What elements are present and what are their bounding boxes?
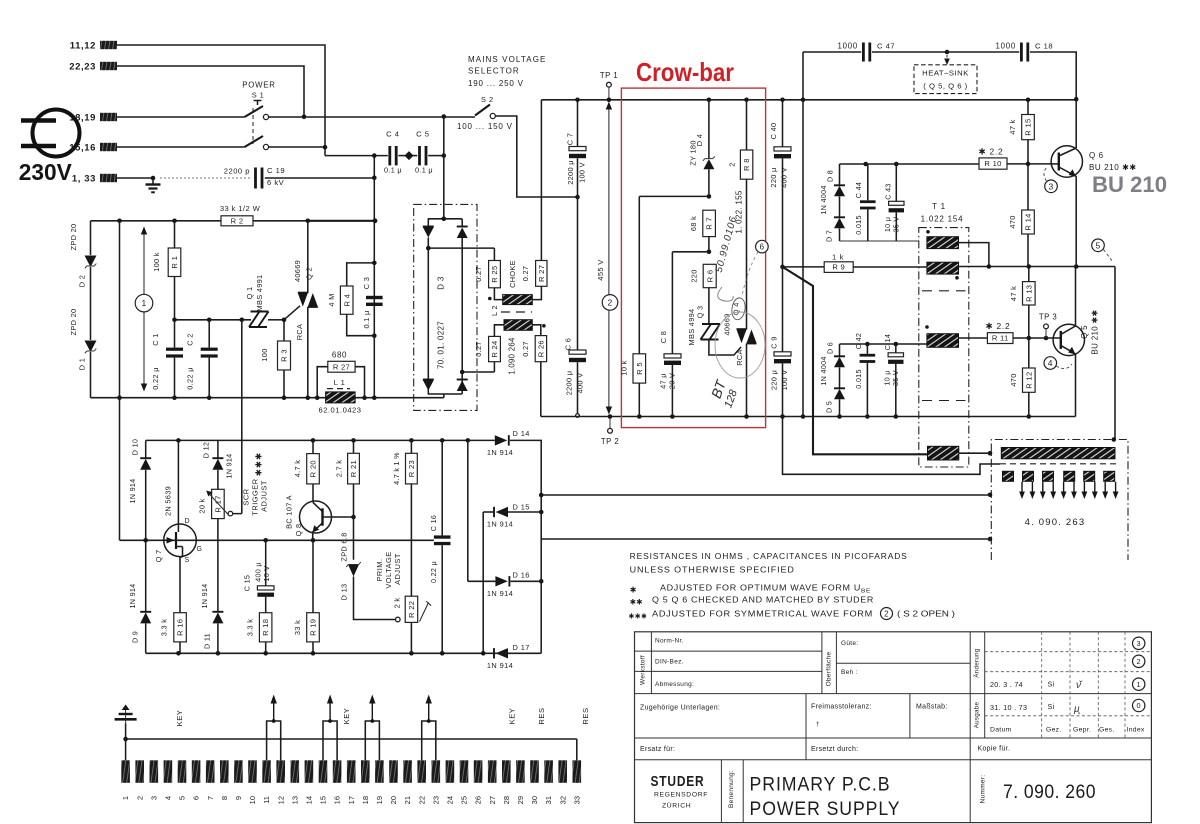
- capacitor C40 220u 400V: [782, 100, 784, 147]
- svg-text:Q 5 Q 6 CHECKED AND MATCHE: Q 5 Q 6 CHECKED AND MATCHED BY STUDER: [652, 596, 874, 605]
- output small blocks: [1003, 471, 1014, 481]
- svg-text:4.7 k 1 %: 4.7 k 1 %: [392, 452, 401, 485]
- paired pin arrows 11/12 15/16 18/19 22/23: [267, 721, 281, 760]
- svg-text:3: 3: [149, 796, 158, 800]
- svg-text:S 2: S 2: [481, 95, 494, 104]
- svg-text:1N 914: 1N 914: [128, 479, 137, 504]
- svg-text:R 25: R 25: [490, 266, 499, 283]
- svg-text:C 5: C 5: [416, 130, 429, 139]
- svg-text:R 5: R 5: [635, 362, 644, 375]
- svg-text:100 k: 100 k: [152, 252, 161, 272]
- node circle 2: [602, 295, 618, 311]
- capacitor C7 2200u 100V: [577, 100, 579, 146]
- svg-text:Q 3: Q 3: [696, 306, 705, 319]
- svg-text:ZPD 20: ZPD 20: [69, 309, 78, 336]
- chassis ground at connector: [122, 705, 130, 711]
- svg-text:R 15: R 15: [1024, 118, 1033, 135]
- svg-text:C 2: C 2: [186, 333, 195, 345]
- svg-text:Q 1: Q 1: [245, 287, 254, 300]
- wire from x783 down to block: [783, 417, 1001, 475]
- svg-text:32: 32: [558, 796, 567, 804]
- capacitor C1 0.22u: [174, 320, 176, 348]
- resistor R3 100: [283, 320, 285, 341]
- FET Q7 2N5639: [164, 524, 197, 557]
- svg-text:1N 4004: 1N 4004: [819, 185, 828, 214]
- bridge diode bottom-left: [423, 379, 434, 381]
- svg-text:Gez.: Gez.: [1046, 727, 1062, 734]
- svg-text:4: 4: [1048, 358, 1053, 368]
- mains plug symbol: [33, 110, 80, 157]
- svg-text:( Q 5, Q 6 ): ( Q 5, Q 6 ): [923, 82, 967, 91]
- capacitor C19 2200p 6kV: [160, 177, 252, 179]
- svg-text:2: 2: [884, 609, 889, 618]
- svg-text:SELECTOR: SELECTOR: [468, 67, 520, 76]
- svg-text:S 1: S 1: [252, 91, 265, 100]
- svg-text:2: 2: [607, 297, 612, 307]
- svg-text:C 1: C 1: [151, 333, 160, 345]
- svg-text:μ̨: μ̨: [1073, 704, 1080, 715]
- svg-text:ADJUST: ADJUST: [393, 553, 402, 585]
- node circle 3: [1045, 180, 1058, 193]
- resistor R15 47k: [1027, 100, 1029, 115]
- long vertical from R2 line to SCR gate line: [119, 221, 121, 541]
- svg-text:R 23: R 23: [407, 460, 416, 477]
- svg-text:✱ 2.2: ✱ 2.2: [979, 147, 1004, 157]
- resistor R8 2: [740, 150, 752, 179]
- svg-text:680: 680: [332, 351, 347, 360]
- svg-text:26: 26: [474, 796, 483, 804]
- resistor R26 0.27: [535, 336, 546, 362]
- test point TP3: [1045, 329, 1047, 338]
- diode D6 1N4004: [839, 344, 841, 356]
- base feed wire y=164: [840, 163, 980, 165]
- svg-text:D 6: D 6: [826, 342, 835, 354]
- svg-text:C 15: C 15: [243, 575, 252, 591]
- svg-text:0.1 μ: 0.1 μ: [362, 310, 371, 328]
- svg-text:25: 25: [460, 796, 469, 804]
- svg-text:R 7: R 7: [705, 217, 714, 230]
- svg-text:3.3 k: 3.3 k: [246, 619, 255, 637]
- svg-text:1.022 154: 1.022 154: [921, 215, 964, 224]
- svg-text:Freimasstoleranz:: Freimasstoleranz:: [811, 704, 872, 711]
- svg-text:C 40: C 40: [769, 123, 778, 140]
- svg-text:D 5: D 5: [825, 401, 834, 413]
- svg-text:Q 5: Q 5: [1080, 325, 1089, 339]
- title block frame: [635, 632, 1152, 823]
- svg-text:19: 19: [375, 796, 384, 804]
- svg-text:Ersetzt durch:: Ersetzt durch:: [811, 746, 858, 753]
- svg-text:470: 470: [1009, 373, 1018, 386]
- node circle 4: [1044, 357, 1057, 370]
- svg-text:D 16: D 16: [513, 571, 530, 580]
- svg-text:1000: 1000: [995, 42, 1016, 51]
- svg-text:ZPD 20: ZPD 20: [69, 224, 78, 251]
- svg-text:PRIMARY P.C.B: PRIMARY P.C.B: [750, 775, 891, 796]
- svg-text:2200 p: 2200 p: [224, 167, 250, 176]
- svg-text:D 3: D 3: [437, 276, 446, 290]
- svg-text:21: 21: [403, 796, 412, 804]
- svg-text:C 16: C 16: [429, 515, 438, 531]
- svg-text:C 44: C 44: [854, 182, 863, 198]
- svg-text:14: 14: [304, 796, 313, 804]
- svg-text:3.3 k: 3.3 k: [160, 619, 169, 637]
- svg-text:R 24: R 24: [490, 340, 499, 357]
- svg-text:L 1: L 1: [334, 378, 346, 387]
- main HT bus: [542, 99, 1077, 101]
- resistor R4 4M with capacitor C3 0.1u: [347, 263, 375, 336]
- svg-text:✱✱✱: ✱✱✱: [254, 452, 264, 476]
- svg-text:✱✱✱: ✱✱✱: [629, 612, 648, 621]
- svg-text:47 k: 47 k: [1009, 286, 1018, 301]
- svg-text:TP 1: TP 1: [600, 71, 618, 80]
- svg-text:6: 6: [759, 243, 764, 252]
- resistor R19 33k: [312, 540, 314, 612]
- svg-text:17: 17: [347, 796, 356, 804]
- svg-text:2200 μ: 2200 μ: [565, 371, 574, 396]
- svg-text:Kopie für.: Kopie für.: [978, 746, 1011, 753]
- svg-text:1N 914: 1N 914: [128, 584, 137, 609]
- svg-text:20 V: 20 V: [668, 373, 677, 389]
- svg-text:470: 470: [1008, 215, 1017, 228]
- svg-text:20. 3 . 74: 20. 3 . 74: [990, 680, 1023, 689]
- svg-text:Ges.: Ges.: [1099, 727, 1115, 734]
- svg-text:100: 100: [260, 348, 269, 361]
- capacitor C14 10u 35V: [895, 344, 897, 353]
- svg-text:Gepr.: Gepr.: [1073, 727, 1091, 734]
- svg-text:D 2: D 2: [78, 275, 87, 287]
- svg-text:62.01.0423: 62.01.0423: [318, 406, 361, 415]
- T1 winding 1: [927, 237, 959, 249]
- svg-text:1N 4004: 1N 4004: [819, 356, 828, 385]
- svg-text:33: 33: [572, 796, 581, 804]
- capacitor C5 0.1u: [413, 155, 418, 157]
- svg-text:STUDER: STUDER: [651, 774, 705, 790]
- svg-text:C 43: C 43: [884, 183, 893, 199]
- wire after S1 lower, joins 11,12: [269, 146, 325, 148]
- emitter rail wire y=266.5: [959, 267, 1116, 439]
- svg-text:Maßstab:: Maßstab:: [916, 704, 948, 711]
- svg-text:20 k: 20 k: [198, 498, 207, 513]
- svg-text:0.1 μ: 0.1 μ: [384, 166, 402, 175]
- bridge diode top-left: [423, 226, 434, 228]
- svg-text:2: 2: [728, 162, 737, 166]
- connector bus line: [126, 739, 577, 760]
- svg-text:BU 210 ✱✱: BU 210 ✱✱: [1089, 163, 1137, 172]
- svg-text:33 k 1/2 W: 33 k 1/2 W: [220, 204, 261, 213]
- svg-text:10: 10: [248, 796, 257, 804]
- vertical x374 from C4/C5 line down: [373, 156, 375, 397]
- output arrows: [1021, 482, 1023, 494]
- bridge diode top-right: [457, 226, 468, 228]
- svg-text:0.22 μ: 0.22 μ: [429, 561, 438, 583]
- resistor R13 47k: [1028, 267, 1030, 282]
- measure arrow with node circle 1: [141, 227, 147, 235]
- svg-text:Zugehörige Unterlagen:: Zugehörige Unterlagen:: [640, 705, 720, 712]
- svg-text:SCR: SCR: [242, 488, 251, 505]
- svg-text:HEAT–SINK: HEAT–SINK: [922, 69, 969, 78]
- svg-text:22,23: 22,23: [69, 61, 96, 72]
- svg-text:4 M: 4 M: [327, 293, 336, 306]
- resistor R2 33k 1/2W: [91, 220, 222, 222]
- svg-text:D 13: D 13: [340, 584, 349, 601]
- svg-text:✱: ✱: [630, 586, 637, 595]
- svg-text:D 4: D 4: [695, 134, 704, 146]
- top rail of trigger section y=440.4: [146, 439, 495, 441]
- svg-text:5: 5: [1095, 240, 1100, 250]
- svg-text:UNLESS OTHERWISE SPECIFIED: UNLESS OTHERWISE SPECIFIED: [630, 566, 795, 575]
- gate wire to triac Q2: [284, 306, 300, 320]
- diode D8 1N4004: [839, 164, 841, 185]
- svg-text:1: 1: [121, 796, 130, 800]
- T1 winding 4: [928, 446, 959, 460]
- svg-text:0: 0: [1136, 701, 1140, 710]
- svg-text:C 4: C 4: [386, 130, 399, 139]
- svg-text:C 6: C 6: [564, 338, 573, 350]
- choke L2 winding A: [503, 295, 533, 305]
- svg-text:9: 9: [234, 796, 243, 800]
- svg-text:Q 6: Q 6: [1089, 151, 1104, 160]
- svg-text:1N 914: 1N 914: [487, 520, 513, 529]
- capacitor C43 10u 35V: [895, 164, 897, 201]
- capacitor C6 2200u 400V: [577, 197, 579, 350]
- svg-text:TP 3: TP 3: [1039, 313, 1057, 322]
- bridge + output to R25: [428, 247, 494, 249]
- wire mains tap down to bridge: [443, 117, 445, 219]
- wire after S1 upper to S2: [269, 116, 475, 118]
- svg-text:400 V: 400 V: [780, 167, 789, 188]
- svg-text:R 22: R 22: [407, 601, 416, 618]
- svg-text:455 V: 455 V: [596, 259, 605, 281]
- choke L2 winding B: [504, 320, 532, 331]
- svg-text:4.7 k: 4.7 k: [293, 460, 302, 478]
- diode D9 1N914: [145, 540, 147, 612]
- diode D10 1N914: [145, 440, 147, 458]
- svg-text:Crow-bar: Crow-bar: [636, 57, 734, 87]
- bottom return wire of control section: [91, 397, 444, 399]
- svg-text:1000: 1000: [837, 42, 858, 51]
- svg-text:2 k: 2 k: [393, 598, 402, 609]
- svg-text:D 12: D 12: [202, 442, 211, 458]
- svg-text:30: 30: [530, 796, 539, 804]
- svg-text:PRIM.: PRIM.: [375, 558, 384, 581]
- svg-text:0.015: 0.015: [854, 369, 863, 389]
- transistor Q5 BU210: [1053, 324, 1084, 355]
- svg-text:190 ... 250 V: 190 ... 250 V: [468, 79, 524, 88]
- svg-text:10 k: 10 k: [620, 360, 629, 375]
- svg-text:POWER SUPPLY: POWER SUPPLY: [750, 799, 901, 820]
- wire D15/D16 output to block: [541, 538, 990, 540]
- svg-text:D 14: D 14: [513, 429, 530, 438]
- svg-text:18: 18: [361, 796, 370, 804]
- svg-text:1N 914: 1N 914: [487, 661, 513, 670]
- svg-text:1N 914: 1N 914: [200, 584, 209, 609]
- svg-text:R 2: R 2: [231, 216, 244, 225]
- svg-text:Ausgabe: Ausgabe: [974, 701, 981, 728]
- svg-text:R 14: R 14: [1024, 213, 1033, 230]
- wire from S2 to C7 node: [495, 116, 577, 197]
- diode D16 1N914: [468, 580, 496, 582]
- diode D7 1N4004: [834, 216, 845, 218]
- T1 winding 3: [927, 334, 959, 348]
- svg-text:BU 210 ✱✱: BU 210 ✱✱: [1091, 309, 1100, 354]
- svg-text:0.015: 0.015: [854, 215, 863, 235]
- svg-text:R 12: R 12: [1024, 372, 1033, 389]
- svg-text:0.27: 0.27: [521, 266, 530, 282]
- zener D1 ZPD20: [85, 341, 97, 353]
- svg-text:✱ 2.2: ✱ 2.2: [986, 321, 1011, 331]
- svg-text:R 27: R 27: [537, 265, 546, 282]
- svg-text:70. 01. 0227: 70. 01. 0227: [437, 321, 446, 369]
- svg-text:R 16: R 16: [176, 619, 185, 636]
- SBS Q3 MBS4994: [701, 324, 712, 340]
- svg-text:7: 7: [206, 796, 215, 800]
- svg-text:35 V: 35 V: [891, 370, 900, 386]
- svg-text:C 18: C 18: [1035, 42, 1053, 51]
- svg-text:Si: Si: [1048, 702, 1055, 711]
- svg-text:28: 28: [502, 796, 511, 804]
- svg-text:6 kV: 6 kV: [267, 178, 285, 187]
- resistor R9 1k: [783, 266, 825, 268]
- svg-text:22: 22: [417, 796, 426, 804]
- svg-text:R 18: R 18: [261, 619, 270, 636]
- svg-text:C 14: C 14: [883, 334, 892, 350]
- winding1 loop to main node: [959, 243, 989, 267]
- feeder vertical x467.8: [467, 440, 469, 581]
- svg-text:1N 914: 1N 914: [225, 454, 234, 479]
- svg-text:Datum: Datum: [990, 727, 1012, 734]
- svg-text:220: 220: [690, 269, 699, 282]
- svg-text:20: 20: [389, 796, 398, 804]
- svg-text:R 20: R 20: [309, 460, 318, 477]
- svg-text:0.27: 0.27: [474, 341, 483, 357]
- svg-text:0.22 μ: 0.22 μ: [151, 367, 160, 390]
- svg-text:L 2: L 2: [490, 305, 499, 316]
- svg-text:CHOKE: CHOKE: [508, 260, 517, 288]
- zener D13 ZPD6.8: [346, 562, 361, 567]
- svg-text:68 k: 68 k: [689, 216, 698, 231]
- resistor R24 0.27: [489, 336, 501, 361]
- svg-text:Oberfläche: Oberfläche: [826, 652, 833, 687]
- svg-text:400 V: 400 V: [576, 373, 585, 394]
- svg-text:33 k: 33 k: [293, 620, 302, 635]
- svg-text:D 1: D 1: [78, 358, 87, 370]
- svg-text:23: 23: [431, 796, 440, 804]
- resistor R12 470: [1028, 338, 1030, 368]
- capacitor C8 47u 20V: [672, 251, 709, 253]
- svg-text:27: 27: [488, 796, 497, 804]
- wire 18,19 to switch S1: [117, 116, 245, 118]
- svg-text:47 μ: 47 μ: [659, 373, 668, 389]
- SBS Q1 MBS4991: [249, 312, 260, 328]
- svg-text:R 1: R 1: [170, 256, 179, 269]
- svg-text:1.090 264: 1.090 264: [508, 337, 517, 375]
- svg-text:2N 5639: 2N 5639: [164, 486, 173, 516]
- svg-text:15: 15: [319, 796, 328, 804]
- svg-text:Güte:: Güte:: [841, 640, 858, 647]
- output resistor bar: [1001, 448, 1115, 459]
- choke core: [501, 311, 532, 313]
- svg-text:R 8: R 8: [742, 158, 751, 171]
- resistor R6 220: [703, 264, 716, 287]
- svg-text:Ersatz für:: Ersatz für:: [640, 746, 675, 753]
- svg-text:R 26: R 26: [537, 340, 546, 357]
- thick wire node6 to T1 lower winding: [783, 267, 928, 454]
- capacitor C42 0.015: [866, 344, 868, 354]
- T1 winding 2: [927, 262, 959, 274]
- svg-text:KEY: KEY: [508, 708, 517, 725]
- gate line to Q1: [175, 319, 252, 321]
- svg-text:VOLTAGE: VOLTAGE: [384, 551, 393, 588]
- svg-text:Benennung:: Benennung:: [728, 770, 735, 808]
- svg-text:12: 12: [276, 796, 285, 804]
- ground symbol at 1,33: [117, 177, 153, 179]
- capacitor C44 0.015: [867, 164, 869, 200]
- output block 4.090.263 dash-dot borders: [991, 440, 1128, 561]
- zener D2 ZPD20: [90, 221, 92, 255]
- svg-text:R 3: R 3: [280, 349, 289, 362]
- svg-text:10 V: 10 V: [262, 566, 271, 582]
- svg-text:C 8: C 8: [659, 331, 668, 343]
- svg-text:29: 29: [516, 796, 525, 804]
- R27 top to HT bus: [540, 100, 542, 261]
- svg-text:35 V: 35 V: [892, 217, 901, 233]
- svg-text:D 11: D 11: [203, 633, 212, 649]
- main bottom bus: [541, 416, 1076, 418]
- resistor R16 3.3k: [174, 613, 187, 642]
- svg-text:C 9: C 9: [770, 336, 779, 348]
- lower group feed wire y=344: [840, 343, 927, 345]
- svg-text:Änderung: Änderung: [974, 648, 981, 677]
- bottom rail of trigger section: [146, 652, 542, 654]
- svg-text:D 15: D 15: [513, 503, 530, 512]
- svg-text:R 10: R 10: [984, 159, 1001, 168]
- wire 22,23: [117, 66, 304, 117]
- node circle 6 with pointer: [756, 240, 769, 253]
- transistor Q8 BC107A: [300, 501, 332, 533]
- svg-text:0.27: 0.27: [521, 341, 530, 357]
- diode D17 1N914: [493, 648, 495, 658]
- svg-text:REGENSDORF: REGENSDORF: [654, 792, 708, 799]
- svg-text:DIN-Bez.: DIN-Bez.: [655, 659, 684, 666]
- SCR gate line y=540.3: [120, 539, 434, 541]
- svg-text:40669: 40669: [293, 260, 302, 282]
- wire 15,16 to switch S1: [117, 146, 245, 148]
- svg-text:MAINS VOLTAGE: MAINS VOLTAGE: [468, 55, 546, 64]
- svg-text:D 17: D 17: [513, 643, 530, 652]
- svg-text:Q 7: Q 7: [154, 550, 163, 563]
- long vertical x=803: [802, 52, 804, 417]
- capacitor C4 0.1u: [325, 147, 388, 155]
- bridge diode bottom-right: [457, 379, 468, 381]
- pencil ellipse around Q3/Q4: [715, 312, 765, 378]
- resistor R14 470: [1022, 210, 1035, 234]
- svg-text:230V: 230V: [19, 159, 72, 185]
- wire D14 output to block: [541, 494, 990, 496]
- svg-text:1: 1: [1136, 680, 1140, 689]
- resistor R18 3.3k: [259, 613, 272, 642]
- svg-text:1N 914: 1N 914: [487, 589, 513, 598]
- svg-text:Si: Si: [1048, 680, 1055, 689]
- capacitor C16 0.22u: [441, 440, 443, 535]
- svg-text:220 μ: 220 μ: [770, 370, 779, 390]
- svg-text:11: 11: [262, 796, 271, 804]
- capacitor C9 220u 100V: [780, 265, 785, 270]
- bridge rectifier D3 70.01.0227 (dash-dot box): [414, 204, 477, 410]
- triac Q2 40669 RCA: [307, 221, 309, 293]
- svg-text:D 7: D 7: [825, 230, 834, 242]
- svg-text:RCA: RCA: [735, 349, 744, 366]
- svg-text:31. 10 . 73: 31. 10 . 73: [990, 703, 1027, 712]
